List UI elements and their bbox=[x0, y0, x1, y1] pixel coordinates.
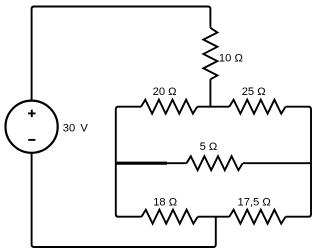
svg-text:30: 30 bbox=[63, 122, 75, 134]
wire: 10 ohm bottom lead to top row node bbox=[209, 79, 211, 106]
resistor 17.5 ohm bbox=[229, 210, 285, 224]
wire: middle row thin lead to 5 ohm bbox=[167, 162, 187, 164]
voltage source V1 bbox=[6, 101, 58, 153]
wire: bottom row right lead bbox=[286, 216, 310, 218]
resistor 18 ohm bbox=[142, 210, 198, 224]
wire: top row right lead bbox=[286, 106, 310, 108]
plus terminal mark bbox=[28, 110, 35, 117]
resistor 25 ohm bbox=[229, 100, 285, 114]
wire: source bottom to bottom rail and up to bottom row junction bbox=[32, 153, 216, 247]
wire: top row middle lead with node to 10 ohm bbox=[197, 106, 229, 108]
wire: bottom row left lead bbox=[117, 216, 142, 218]
svg-text:25 Ω: 25 Ω bbox=[242, 86, 266, 98]
svg-text:18 Ω: 18 Ω bbox=[153, 197, 177, 209]
wire: middle row bold segment bbox=[116, 162, 167, 165]
wire: box left vertical bbox=[116, 107, 119, 217]
wire: top rail from source top to 10-ohm resistor bbox=[32, 7, 211, 101]
resistor 5 ohm bbox=[187, 156, 243, 170]
wire: middle row right lead bbox=[243, 162, 311, 164]
wire: bottom row middle lead with junction node bbox=[198, 216, 230, 218]
svg-text:5 Ω: 5 Ω bbox=[200, 141, 218, 153]
svg-text:20 Ω: 20 Ω bbox=[153, 86, 177, 98]
wire: box right vertical bbox=[309, 107, 312, 217]
resistor 10 ohm (vertical) bbox=[203, 28, 217, 80]
wire: top row left lead bbox=[117, 106, 141, 108]
minus terminal mark bbox=[28, 139, 35, 141]
svg-text:17,5 Ω: 17,5 Ω bbox=[238, 197, 271, 209]
svg-text:V: V bbox=[80, 122, 88, 134]
svg-text:10 Ω: 10 Ω bbox=[219, 53, 243, 65]
resistor 20 ohm bbox=[141, 100, 197, 114]
